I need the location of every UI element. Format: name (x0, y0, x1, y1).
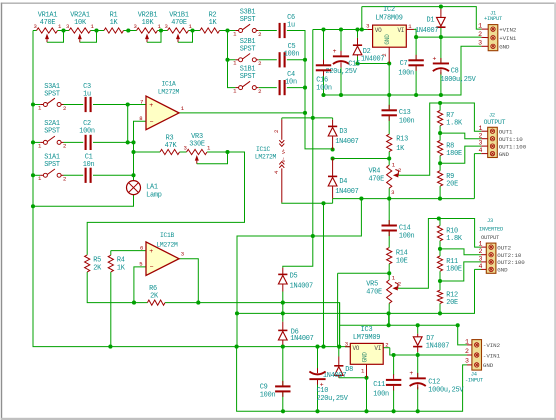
diode D1 (436, 17, 445, 28)
wire rail left (282, 201, 333, 204)
diode D5 leads (282, 268, 284, 292)
resistor R14 (387, 248, 408, 266)
wire J2 gnd stub (474, 153, 481, 155)
pin IC3 GND (361, 364, 367, 378)
junction (414, 35, 418, 39)
svg-text:-VIN1: -VIN1 (483, 352, 501, 359)
svg-text:+: + (409, 370, 413, 377)
wire VI stub (383, 347, 390, 349)
wire IC2 out to C7 (414, 29, 417, 60)
junction (360, 27, 364, 31)
wire C9 top (282, 347, 284, 387)
wire VR5 wiper to J3 (398, 219, 481, 289)
wire switch bus (228, 31, 236, 60)
wire R11-R12 (439, 271, 441, 290)
junction (281, 345, 285, 349)
diode D4 (328, 176, 359, 197)
junction (321, 345, 325, 349)
junction (387, 323, 391, 327)
junction (337, 345, 341, 349)
wire (124, 30, 137, 32)
label C14 (399, 224, 415, 240)
wire V+ feed (282, 117, 333, 119)
junction (311, 234, 315, 238)
svg-text:3: 3 (366, 23, 369, 30)
wire R4 bottom (110, 272, 112, 347)
wire R10 top (439, 219, 441, 226)
resistor R1 (104, 28, 124, 33)
switch S2B1 (233, 38, 261, 67)
svg-text:1K: 1K (117, 264, 126, 272)
svg-text:VR5: VR5 (366, 280, 378, 288)
wire C13 top (388, 95, 390, 110)
junction (131, 140, 135, 144)
junction (31, 102, 35, 106)
svg-text:C8: C8 (451, 67, 459, 75)
capacitor C9 (275, 381, 290, 397)
wire (64, 174, 84, 176)
svg-text:OUT2: OUT2 (497, 244, 511, 251)
capacitor C3 (83, 83, 92, 112)
wire pin6 (111, 250, 146, 252)
svg-text:47K: 47K (165, 142, 178, 150)
junction (439, 35, 443, 39)
junction (331, 156, 335, 160)
svg-text:+: + (149, 248, 153, 255)
wire IC2 feed down (312, 30, 314, 237)
svg-text:LM272M: LM272M (156, 242, 178, 249)
switch S3A1 (38, 83, 66, 112)
junction (225, 58, 229, 62)
wire (323, 203, 325, 346)
wire bottom rail (237, 347, 467, 412)
svg-text:3: 3 (478, 255, 482, 262)
svg-text:20E: 20E (446, 180, 458, 188)
wire C16 bottom (323, 71, 325, 95)
svg-text:10n: 10n (83, 161, 95, 169)
junction (303, 58, 307, 62)
svg-text:1000u,25V: 1000u,25V (428, 387, 464, 395)
junction (311, 116, 315, 120)
voltage regulator IC2 (373, 6, 407, 47)
svg-text:J3: J3 (487, 218, 493, 224)
capacitor C2 (79, 120, 95, 150)
capacitor C16 (316, 60, 331, 76)
wire D5 feed (283, 236, 313, 268)
wire rail right (333, 198, 475, 200)
svg-text:100n: 100n (284, 51, 300, 59)
svg-text:IC1C: IC1C (256, 146, 271, 153)
wire (64, 141, 84, 143)
diode D6 leads (282, 322, 284, 345)
wire D2 top (357, 30, 359, 38)
pin stubs J4 (467, 345, 472, 365)
svg-text:GND: GND (361, 352, 368, 363)
wire (93, 104, 146, 106)
svg-text:OUT1:10: OUT1:10 (499, 136, 524, 143)
potentiometer VR3 (183, 133, 227, 164)
wire C14-R14 (388, 231, 390, 248)
wire (388, 313, 390, 325)
wire (259, 30, 277, 32)
wire (180, 151, 187, 153)
svg-text:3: 3 (133, 23, 136, 30)
wire C14 top (388, 199, 390, 226)
pin stub IC2 VI (406, 23, 414, 30)
wire C11 top (393, 355, 395, 375)
wire rail jog (332, 199, 334, 204)
wire R5 bottom (87, 272, 147, 303)
svg-text:GND: GND (499, 151, 510, 158)
diode D3 leads (332, 120, 334, 150)
svg-text:2: 2 (478, 248, 482, 255)
svg-text:1u: 1u (287, 21, 295, 29)
wire inverting input (134, 121, 147, 180)
svg-text:V−: V− (281, 157, 287, 163)
svg-text:-INPUT: -INPUT (465, 377, 484, 383)
svg-text:2: 2 (258, 31, 261, 38)
svg-text:3: 3 (391, 189, 394, 196)
junction (315, 409, 319, 413)
svg-text:1N4007: 1N4007 (415, 27, 438, 35)
wire (388, 273, 390, 280)
svg-text:C7: C7 (400, 60, 408, 68)
wire (361, 7, 363, 30)
label C12 (428, 379, 464, 395)
junction (225, 150, 229, 154)
wire C7 bottom (415, 66, 417, 95)
wire C16 top (323, 30, 325, 65)
svg-text:OUT2:100: OUT2:100 (497, 259, 525, 266)
svg-text:+VIN1: +VIN1 (499, 35, 517, 42)
wire (58, 30, 70, 32)
pin stub IC3 VO (345, 341, 388, 348)
svg-text:C9: C9 (260, 383, 268, 391)
wire (158, 30, 168, 32)
wire (189, 30, 201, 32)
label C10 (317, 387, 349, 403)
resistor R13 (387, 134, 408, 153)
svg-text:V+: V+ (281, 149, 287, 155)
wire (207, 151, 228, 153)
svg-text:+: + (433, 55, 437, 62)
svg-text:+: + (149, 102, 153, 109)
junction (416, 409, 420, 413)
svg-text:5: 5 (139, 261, 142, 268)
svg-text:OUT1:100: OUT1:100 (499, 143, 527, 150)
junction (438, 279, 442, 283)
svg-text:D8: D8 (345, 366, 353, 374)
capacitor C11 (386, 374, 401, 390)
wire (287, 59, 305, 61)
wire C8 bottom (440, 72, 442, 95)
wire (282, 303, 284, 322)
potentiometer VR2B1 (133, 12, 161, 43)
svg-text:VO: VO (375, 27, 382, 34)
wire C12 bottom (417, 387, 419, 412)
capacitor C4 (279, 71, 297, 95)
label R2 (209, 12, 218, 28)
svg-text:2: 2 (63, 143, 66, 150)
svg-text:C16: C16 (316, 76, 328, 84)
svg-text:3: 3 (465, 357, 469, 364)
svg-text:180E: 180E (446, 150, 462, 158)
junction (438, 311, 442, 315)
svg-text:220u,25V: 220u,25V (317, 395, 349, 403)
svg-text:10K: 10K (142, 19, 155, 27)
junction (364, 409, 368, 413)
svg-text:10E: 10E (396, 257, 408, 265)
svg-text:LA1: LA1 (146, 183, 158, 191)
svg-text:INVERTED: INVERTED (479, 227, 503, 233)
label VR4 (369, 161, 402, 196)
resistor R3 (160, 149, 180, 154)
svg-text:10n: 10n (285, 79, 297, 87)
wire (338, 347, 340, 357)
junction (416, 353, 420, 357)
junction (126, 28, 130, 32)
wire (93, 174, 134, 176)
pin stubs J2 (481, 131, 488, 153)
svg-text:OUTPUT: OUTPUT (481, 235, 500, 241)
svg-text:VI: VI (374, 345, 381, 352)
wire IC3 VO stub green (345, 346, 350, 348)
svg-text:LM272M: LM272M (158, 89, 180, 96)
svg-text:D3: D3 (339, 128, 347, 136)
wire mid bottom bus (237, 269, 475, 313)
junction (387, 197, 391, 201)
svg-text:330E: 330E (189, 141, 205, 149)
svg-text:1000u,25V: 1000u,25V (441, 76, 477, 84)
svg-text:1N4007: 1N4007 (335, 188, 358, 196)
potentiometer VR4 (387, 165, 399, 188)
label VR5 (366, 274, 401, 296)
svg-text:470E: 470E (40, 19, 56, 27)
wire (281, 118, 283, 120)
junction (126, 140, 130, 144)
junction (339, 93, 343, 97)
svg-text:LM78M09: LM78M09 (375, 14, 402, 22)
junction (321, 201, 325, 205)
svg-text:470E: 470E (369, 176, 385, 184)
junction (339, 27, 343, 31)
voltage regulator IC3 (345, 326, 383, 365)
svg-text:2: 2 (398, 281, 401, 288)
connector J4 (465, 339, 501, 384)
junction (414, 93, 418, 97)
svg-text:2: 2 (63, 176, 66, 183)
wire D2 bottom (357, 56, 359, 63)
svg-text:R5: R5 (93, 256, 101, 264)
svg-text:3: 3 (181, 251, 184, 258)
junction (392, 409, 396, 413)
wire pin5 (134, 267, 146, 303)
capacitor C7 (408, 55, 423, 71)
junction (438, 161, 442, 165)
diode D2 leads (357, 38, 359, 57)
capacitor C12 (409, 370, 425, 389)
svg-text:VR4: VR4 (369, 167, 381, 175)
wire to OUT2:10 (440, 249, 481, 255)
svg-text:8: 8 (139, 115, 142, 122)
svg-text:2: 2 (385, 341, 388, 348)
svg-text:2: 2 (63, 105, 66, 112)
junction (331, 147, 335, 151)
junction (439, 93, 443, 97)
junction (321, 27, 325, 31)
junction (94, 28, 98, 32)
junction (235, 345, 239, 349)
capacitor C6 (279, 14, 295, 38)
wire D7 top (417, 325, 419, 333)
svg-text:100n: 100n (399, 233, 415, 241)
junction (387, 311, 391, 315)
wire (337, 273, 339, 346)
diode D4 leads (332, 159, 334, 199)
junction (456, 323, 460, 327)
svg-text:100n: 100n (79, 128, 95, 136)
svg-text:2K: 2K (150, 292, 159, 300)
junction (31, 173, 35, 177)
junction (438, 197, 442, 201)
wire VR3 to R5 (87, 152, 244, 255)
wire (33, 174, 40, 176)
label D1 (415, 17, 438, 35)
wire R4 top (110, 251, 112, 256)
svg-text:2: 2 (258, 88, 261, 95)
svg-text:100n: 100n (399, 117, 415, 125)
op-amp power IC1C (273, 120, 287, 203)
svg-text:2: 2 (258, 60, 261, 67)
resistor R11 (437, 256, 461, 274)
wire mid rail (324, 46, 482, 95)
svg-text:20E: 20E (446, 299, 458, 307)
wire VO net (110, 346, 345, 348)
wire J2 gnd down (473, 154, 475, 199)
svg-text:SPST: SPST (240, 16, 256, 24)
label C7 (398, 60, 414, 78)
wire (339, 303, 341, 347)
capacitor C13 (382, 105, 397, 121)
wire lamp return (33, 195, 134, 207)
svg-text:R4: R4 (117, 256, 125, 264)
resistor R6 (147, 300, 165, 305)
junction (438, 247, 442, 251)
wire (440, 7, 442, 9)
wire top +V (362, 7, 482, 30)
svg-text:SPST: SPST (44, 161, 60, 169)
label C13 (399, 109, 415, 125)
svg-text:2: 2 (273, 130, 280, 133)
svg-text:2K: 2K (93, 264, 102, 272)
wire to OUT1:100 (440, 146, 481, 163)
svg-text:C10: C10 (317, 387, 329, 395)
junction (159, 28, 163, 32)
label C9 (260, 383, 276, 399)
op-amp IC1A (139, 80, 185, 129)
svg-text:1N4007: 1N4007 (426, 343, 449, 351)
svg-text:1u: 1u (83, 90, 91, 98)
junction (321, 93, 325, 97)
junction (126, 102, 130, 106)
svg-text:1N4007: 1N4007 (335, 138, 358, 146)
diode D6 (278, 328, 313, 343)
svg-text:−: − (150, 119, 154, 126)
wire switch bus 2 (228, 60, 236, 88)
svg-text:C12: C12 (428, 379, 440, 387)
junction (281, 301, 285, 305)
capacitor C1 (83, 154, 95, 183)
svg-text:C14: C14 (399, 224, 411, 232)
lamp LA1 (127, 181, 162, 200)
svg-text:GND: GND (499, 44, 510, 51)
resistor R12 (437, 290, 458, 307)
wire C15 bottom (340, 65, 342, 95)
svg-text:6: 6 (140, 244, 143, 251)
label R6 (149, 285, 159, 301)
wire -VIN1 row (390, 348, 467, 355)
resistor R7 (438, 111, 463, 128)
potentiometer VR2A1 (66, 12, 97, 43)
junction (438, 131, 442, 135)
junction (437, 216, 441, 220)
diode D2 (353, 44, 385, 63)
svg-text:180E: 180E (446, 266, 462, 274)
svg-text:Lamp: Lamp (146, 191, 162, 199)
svg-text:1N4007: 1N4007 (323, 372, 346, 380)
svg-text:1N4007: 1N4007 (290, 335, 313, 343)
svg-text:100n: 100n (260, 392, 276, 400)
svg-text:2: 2 (398, 167, 401, 174)
junction (416, 323, 420, 327)
svg-text:VI: VI (397, 27, 404, 34)
diode D1 leads (440, 9, 442, 17)
wire IC2 input (313, 29, 368, 31)
wire left bus (33, 31, 110, 347)
resistor R9 (438, 171, 459, 189)
svg-text:470E: 470E (366, 289, 382, 297)
svg-text:−: − (150, 264, 154, 271)
wire R9 bottom (439, 186, 441, 199)
potentiometer VR1A1 (33, 12, 63, 43)
svg-text:GND: GND (497, 267, 508, 274)
diode D5 (278, 273, 313, 291)
svg-text:VO: VO (353, 345, 360, 352)
svg-text:GND: GND (384, 34, 391, 45)
wire VR5 top link (338, 272, 390, 274)
resistor R10 (437, 226, 462, 243)
junction (281, 409, 285, 413)
svg-text:C11: C11 (373, 381, 385, 389)
svg-text:IC1A: IC1A (161, 80, 176, 87)
diode D7 leads (417, 334, 419, 352)
svg-text:3: 3 (183, 145, 186, 152)
wire C9 bottom (282, 392, 284, 412)
junction (132, 301, 136, 305)
svg-text:-VIN2: -VIN2 (483, 342, 501, 349)
wire R6 right (165, 302, 198, 304)
svg-text:R13: R13 (396, 136, 408, 144)
junction (131, 173, 135, 177)
wire (93, 141, 128, 143)
wire R14 bottom (388, 264, 390, 274)
wire C11 bottom (393, 390, 395, 412)
svg-text:C13: C13 (399, 109, 411, 117)
svg-text:D1: D1 (427, 17, 435, 25)
junction (225, 28, 229, 32)
wire VR5 bottom (388, 303, 390, 325)
svg-text:100n: 100n (373, 390, 389, 398)
